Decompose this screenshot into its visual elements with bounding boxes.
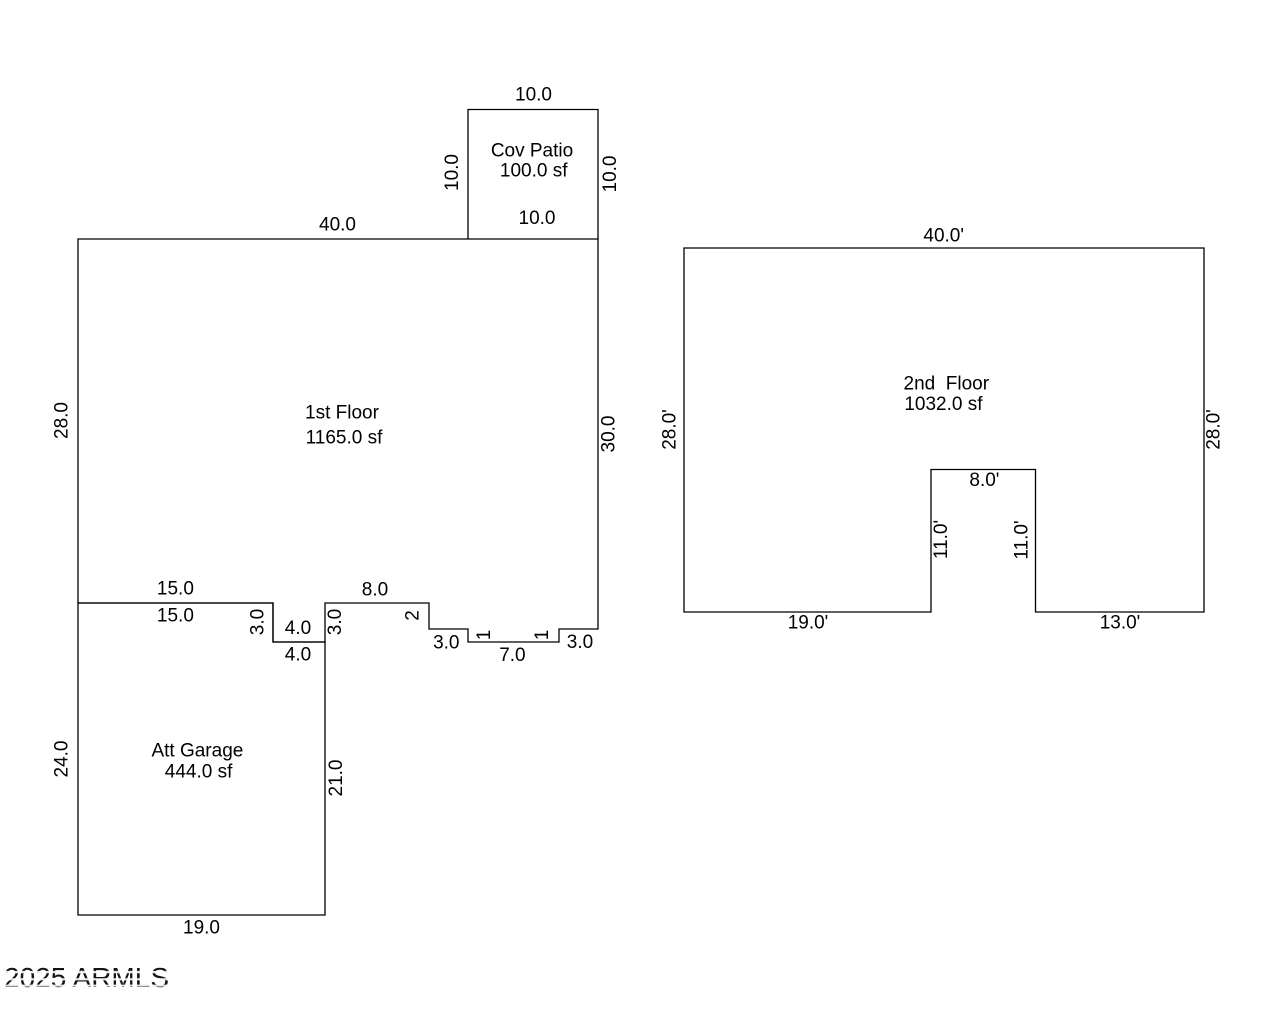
svg-text:40.0': 40.0' [923, 226, 964, 247]
svg-text:28.0: 28.0 [52, 402, 73, 439]
svg-text:1st Floor: 1st Floor [305, 403, 380, 424]
svg-text:30.0: 30.0 [598, 416, 619, 453]
svg-text:11.0': 11.0' [931, 520, 952, 559]
svg-text:7.0: 7.0 [499, 645, 525, 666]
svg-text:2: 2 [403, 610, 424, 621]
svg-text:4.0: 4.0 [285, 645, 311, 666]
watermark stripe 1 [0, 971, 180, 973]
svg-text:2nd Floor: 2nd Floor [904, 374, 990, 395]
watermark stripe 2 [0, 978, 180, 980]
svg-text:1: 1 [532, 630, 553, 641]
svg-text:21.0: 21.0 [326, 760, 347, 797]
svg-text:3.0: 3.0 [247, 609, 268, 635]
svg-text:24.0: 24.0 [52, 741, 73, 778]
svg-text:19.0': 19.0' [788, 613, 829, 634]
svg-text:10.0: 10.0 [519, 208, 556, 229]
wall outline: 2nd Floor [684, 248, 1204, 612]
svg-text:3.0: 3.0 [433, 633, 459, 654]
svg-text:444.0 sf: 444.0 sf [165, 762, 233, 783]
svg-text:19.0: 19.0 [183, 918, 220, 939]
svg-text:1: 1 [474, 630, 495, 641]
svg-text:40.0: 40.0 [319, 215, 356, 236]
watermark stripe 3 [0, 985, 180, 987]
svg-text:4.0: 4.0 [285, 618, 311, 639]
svg-text:8.0: 8.0 [362, 580, 388, 601]
svg-text:15.0: 15.0 [157, 579, 194, 600]
svg-text:1032.0 sf: 1032.0 sf [904, 394, 983, 415]
svg-text:Att Garage: Att Garage [151, 741, 243, 762]
svg-text:28.0': 28.0' [660, 409, 681, 450]
svg-text:8.0': 8.0' [969, 470, 999, 491]
svg-text:11.0': 11.0' [1012, 520, 1033, 559]
svg-text:100.0 sf: 100.0 sf [500, 161, 568, 182]
svg-text:1165.0 sf: 1165.0 sf [306, 427, 383, 448]
svg-text:15.0: 15.0 [157, 606, 194, 627]
wall outline: Att Garage [78, 603, 325, 915]
wall outline: Cov Patio [468, 110, 598, 240]
svg-text:10.0: 10.0 [515, 85, 552, 106]
svg-text:3.0: 3.0 [325, 609, 346, 635]
wall outline: 1st Floor [78, 239, 598, 642]
svg-text:2025 ARMLS: 2025 ARMLS [4, 962, 169, 993]
svg-text:3.0: 3.0 [567, 632, 593, 653]
svg-text:10.0: 10.0 [442, 154, 463, 191]
svg-text:13.0': 13.0' [1100, 613, 1141, 634]
svg-text:10.0: 10.0 [600, 156, 621, 193]
svg-text:Cov Patio: Cov Patio [491, 141, 573, 162]
svg-text:28.0': 28.0' [1204, 409, 1225, 450]
